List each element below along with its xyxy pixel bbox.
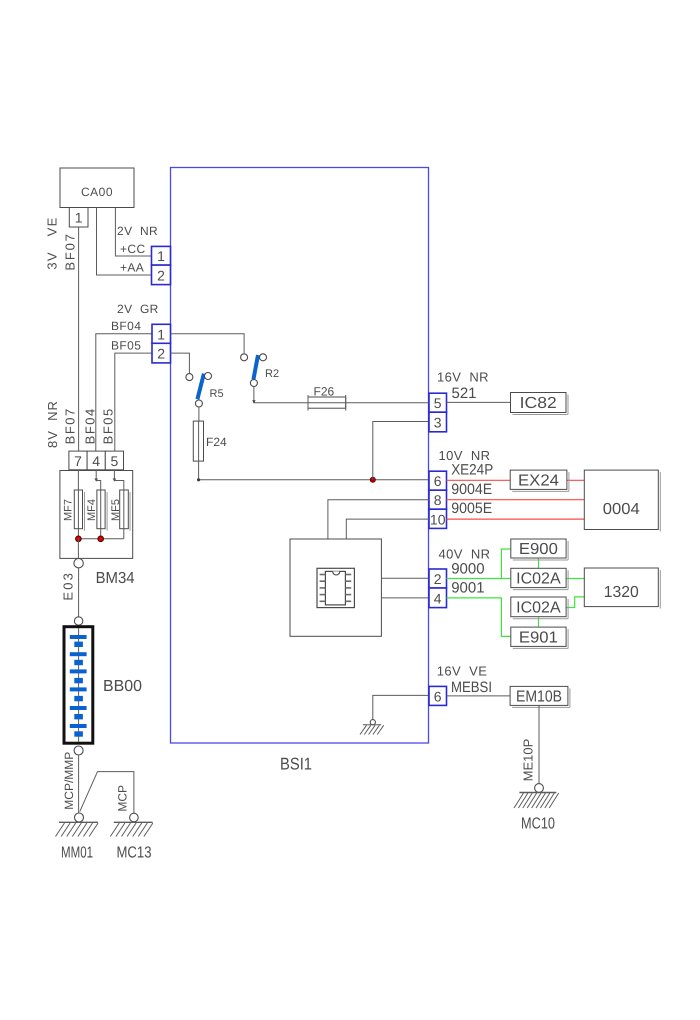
assembly 0004	[584, 470, 658, 529]
wire: pin 5 to IC82	[447, 401, 511, 403]
svg-text:BF04: BF04	[111, 319, 141, 333]
svg-text:16V NR: 16V NR	[437, 369, 489, 384]
connector IC02A (lower)	[511, 597, 566, 617]
pin 6 of BSI1	[429, 471, 447, 490]
connector IC82	[511, 393, 567, 413]
svg-text:IC82: IC82	[520, 395, 557, 412]
wire MMP: battery to ground MM01	[78, 755, 80, 813]
wire (green): IC02A to 1320	[566, 578, 584, 580]
wire: CPU to pin 2	[381, 577, 429, 579]
wire ME10P: EM10B down to ground MC10	[538, 705, 540, 783]
svg-text:MF4: MF4	[86, 499, 98, 521]
node at battery top	[74, 617, 82, 625]
svg-text:F26: F26	[314, 385, 335, 399]
pin 5 of BSI1	[429, 393, 447, 412]
svg-text:10: 10	[430, 511, 446, 527]
svg-text:1320: 1320	[604, 584, 639, 601]
wire: bus joining fuses	[78, 538, 123, 540]
svg-text:E900: E900	[519, 541, 558, 558]
pin 2 (BF05) of BSI1	[152, 343, 171, 363]
wire (green): E900 down to IC02A	[538, 558, 540, 568]
svg-text:MEBSI: MEBSI	[451, 679, 492, 696]
wire MCP branch: diagonal to MC13	[80, 772, 134, 814]
IC chip symbol	[317, 568, 354, 607]
wire: pin 6 to EM10B	[447, 695, 511, 697]
wire (green): IC02A-2 jog to 1320	[566, 597, 584, 608]
junction (red) at MF7	[76, 536, 82, 542]
svg-text:8V NR: 8V NR	[45, 400, 60, 448]
wire: CPU to pin 4	[381, 597, 429, 599]
svg-text:2: 2	[157, 346, 165, 362]
svg-text:7: 7	[74, 453, 82, 469]
fuse F26	[308, 397, 346, 408]
fuse box BM34	[60, 471, 133, 559]
wire +CC: CA00 to BSI pin 1	[115, 208, 151, 257]
svg-text:F24: F24	[206, 435, 227, 449]
wire BF05: down to BM34 pin 5	[115, 353, 152, 451]
wire: F24 down and right to pin 6	[199, 461, 429, 480]
pin 3 of BSI1	[429, 412, 447, 432]
tick at R2 wire corner	[252, 400, 255, 403]
svg-text:MCP/MMP: MCP/MMP	[62, 752, 76, 810]
pin 10 of BSI1	[429, 509, 447, 528]
svg-text:MCP: MCP	[116, 785, 130, 812]
wire BF04: down to BM34 pin 4	[96, 334, 152, 451]
svg-text:4: 4	[92, 453, 100, 469]
svg-text:IC02A: IC02A	[516, 571, 561, 588]
connector E900	[511, 539, 566, 558]
connector E901	[511, 627, 566, 646]
wire: pin 10 from CPU	[346, 519, 429, 539]
svg-text:MF5: MF5	[110, 499, 122, 521]
svg-text:40V NR: 40V NR	[439, 547, 491, 562]
pin 6 (MEBSI) of BSI1	[429, 686, 447, 705]
svg-text:BF07: BF07	[62, 232, 77, 270]
fuse MF7	[74, 490, 82, 529]
wire: pin2 BF05 to switch R5	[171, 353, 190, 373]
wire: pin1 BF04 to switch R2	[171, 334, 245, 354]
svg-text:BF05: BF05	[101, 407, 116, 444]
svg-text:9000: 9000	[451, 561, 484, 578]
svg-text:1: 1	[157, 248, 165, 264]
connector CA00	[60, 168, 134, 208]
wire: pin 8 from CPU	[328, 500, 429, 539]
ground MC10	[514, 784, 559, 808]
pin 1 (+CC) of BSI1	[152, 246, 171, 265]
switch R5	[197, 374, 204, 400]
junction node (dark red)	[370, 477, 375, 482]
wire: pin 4 through fuse MF4	[96, 470, 101, 539]
node at battery bottom	[74, 746, 83, 755]
wire: BM34 out to battery	[77, 539, 79, 559]
svg-text:2V GR: 2V GR	[117, 302, 159, 316]
svg-text:6: 6	[434, 473, 442, 489]
node at BM34 output	[74, 559, 83, 568]
wire: internal ground to pin 6	[373, 695, 429, 719]
svg-text:2V NR: 2V NR	[117, 224, 158, 238]
wire: pin 5 through fuse MF5	[114, 470, 123, 539]
wire (green): pin 2 to IC02A with branch to E900	[447, 578, 511, 580]
svg-text:EM10B: EM10B	[516, 689, 562, 706]
pin 4 of BSI1	[429, 588, 447, 608]
ground MC13	[110, 813, 153, 836]
assembly 1320	[584, 568, 658, 607]
ground MM01	[56, 813, 99, 837]
svg-text:521: 521	[452, 385, 477, 402]
connector EM10B	[510, 686, 568, 705]
wire (green): pin 4 to E901 branch	[447, 598, 511, 637]
svg-text:8: 8	[434, 492, 442, 508]
connector EX24	[510, 470, 567, 489]
svg-text:BF07: BF07	[62, 407, 77, 444]
wire: R2 to fuse F26 to pin 5	[254, 387, 429, 403]
svg-text:ME10P: ME10P	[520, 739, 535, 782]
svg-text:+AA: +AA	[120, 261, 144, 275]
junction at F24 corner	[197, 478, 200, 481]
switch R2	[253, 355, 258, 379]
svg-text:MC13: MC13	[117, 845, 152, 862]
fuse MF5	[120, 490, 129, 529]
svg-text:R2: R2	[265, 368, 279, 380]
pin 8 of BSI1	[429, 490, 447, 509]
pin 1 of CA00	[69, 208, 88, 228]
tick at MF4 jog	[95, 479, 98, 482]
svg-text:MM01: MM01	[61, 845, 93, 862]
wire: R5 to fuse F24	[198, 407, 200, 421]
pin 1 (BF04) of BSI1	[152, 324, 171, 343]
svg-text:2: 2	[434, 571, 442, 587]
svg-text:3V VE: 3V VE	[44, 216, 59, 269]
pin 7 of BM34	[69, 451, 87, 470]
svg-text:4: 4	[434, 590, 442, 606]
wire E03: down to battery	[78, 568, 80, 617]
wire +AA: CA00 to BSI pin 2	[97, 208, 152, 276]
wire (red): pin 10 to 0004	[447, 518, 585, 520]
wire: pin 7 through fuse MF7	[77, 470, 79, 539]
svg-text:5: 5	[434, 395, 442, 411]
battery BB00	[64, 627, 93, 744]
ground (internal BSI1)	[360, 720, 384, 735]
svg-text:9004E: 9004E	[451, 481, 492, 498]
svg-text:BF04: BF04	[82, 407, 97, 444]
svg-text:5: 5	[111, 453, 119, 469]
pin 5 of BM34	[105, 451, 123, 470]
connector IC02A (upper)	[511, 568, 566, 587]
svg-text:1: 1	[157, 326, 165, 342]
pin 2 of BSI1	[429, 569, 447, 588]
svg-text:3: 3	[434, 415, 442, 431]
fuse MF4	[97, 490, 105, 529]
svg-text:BSI1: BSI1	[280, 755, 312, 774]
svg-text:BF05: BF05	[111, 339, 141, 353]
tick at MF5 jog	[113, 479, 116, 482]
svg-text:MC10: MC10	[521, 816, 555, 833]
svg-text:BM34: BM34	[96, 570, 135, 587]
wire (red): EX24 to 0004	[567, 479, 584, 481]
fuse F24	[193, 421, 203, 461]
svg-text:CA00: CA00	[81, 185, 113, 199]
svg-text:0004: 0004	[603, 501, 640, 518]
wire: pin 3 down to junction	[373, 422, 429, 480]
svg-text:16V VE: 16V VE	[437, 664, 488, 679]
svg-text:MF7: MF7	[63, 499, 75, 521]
CPU box inside BSI1	[290, 539, 381, 636]
ECU box BSI1	[171, 168, 429, 744]
pin 2 (+AA) of BSI1	[152, 265, 171, 285]
svg-text:6: 6	[434, 688, 442, 704]
svg-text:E901: E901	[519, 629, 558, 646]
svg-text:9005E: 9005E	[451, 500, 492, 517]
wire (green): IC02A-2 down to E901	[538, 617, 540, 627]
svg-text:2: 2	[157, 267, 165, 283]
svg-text:1: 1	[75, 210, 83, 226]
wire (red): pin 8 to 0004	[447, 499, 585, 501]
svg-text:9001: 9001	[451, 579, 484, 596]
wire BF07: CA00 pin1 down to BM34 pin 7	[78, 227, 80, 451]
svg-text:+CC: +CC	[120, 242, 146, 256]
svg-text:IC02A: IC02A	[516, 600, 561, 617]
svg-text:EX24: EX24	[518, 472, 559, 489]
wire (red): pin 6 to EX24	[447, 479, 511, 481]
svg-text:XE24P: XE24P	[451, 462, 493, 479]
svg-text:E03: E03	[60, 571, 75, 601]
svg-text:R5: R5	[210, 388, 224, 400]
pin 4 of BM34	[87, 451, 105, 470]
svg-text:BB00: BB00	[103, 678, 142, 695]
junction (red) at MF4	[98, 536, 104, 542]
